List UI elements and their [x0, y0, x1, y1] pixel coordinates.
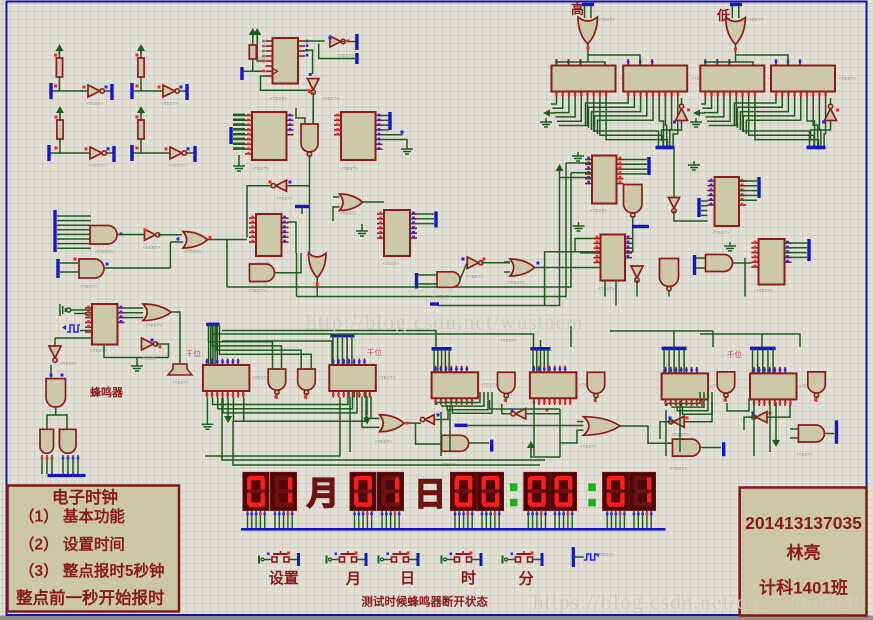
wire drv-v: [210, 325, 212, 365]
terminal T36: [434, 212, 437, 228]
ground g36: [356, 227, 368, 236]
terminal bus drv: [531, 347, 551, 351]
clock source CLK2: [572, 547, 600, 567]
terminal bus: [807, 146, 826, 150]
wire gao-t: [584, 6, 586, 18]
wire u24-r: [785, 243, 808, 257]
wire u42-loop: [104, 344, 169, 357]
inverter bus: [676, 104, 688, 120]
svg-text:<TEXT>: <TEXT>: [145, 323, 162, 328]
wire gao-b: [588, 55, 640, 66]
svg-text:<TEXT>: <TEXT>: [248, 288, 265, 293]
svg-text:201413137035: 201413137035: [745, 513, 862, 533]
wire 1a: [59, 51, 61, 91]
inverter U7: [307, 79, 319, 95]
wire buzz dn: [42, 455, 78, 474]
terminal T52: [490, 440, 493, 452]
pins drv bottom: [207, 391, 243, 398]
inverter U42: [142, 338, 158, 350]
svg-text:<TEXT>: <TEXT>: [378, 375, 395, 380]
inverter U57: [752, 412, 767, 423]
terminal TE: [430, 302, 439, 305]
svg-text:<TEXT>: <TEXT>: [252, 375, 269, 380]
wire u38-o: [481, 262, 510, 264]
pins IC U12 bottom: [705, 92, 755, 99]
wire u17-l3: [560, 177, 593, 179]
wire u31-i: [287, 185, 310, 187]
wire u51-r: [435, 409, 449, 420]
svg-text:<TEXT>: <TEXT>: [382, 261, 399, 266]
wire u5-d: [305, 50, 313, 74]
wire vE3: [227, 173, 571, 287]
wire u29-i2b: [169, 242, 171, 268]
NAND drv: [298, 369, 316, 395]
display bus blue: [241, 528, 666, 531]
wire stair1: [213, 392, 348, 405]
wire x560: [559, 409, 561, 457]
ground g15: [401, 145, 413, 154]
wire drv-v: [532, 349, 534, 372]
svg-text:<TEXT>: <TEXT>: [276, 196, 293, 201]
wire u57-r: [767, 404, 790, 417]
terminal 2L: [130, 83, 133, 99]
terminal T14: [229, 127, 232, 144]
AND gate U27 8in: [90, 226, 117, 245]
pins drv top: [436, 366, 467, 373]
wire drv-v: [543, 349, 545, 372]
buffer U2: [163, 85, 179, 97]
IC drv: [662, 373, 709, 399]
OR gate U41: [143, 304, 171, 321]
ground gH: [724, 242, 736, 251]
wire u19-l1: [575, 239, 601, 253]
ground gd1: [201, 420, 213, 429]
wire u41-o: [171, 312, 180, 360]
terminal 1R: [110, 84, 113, 100]
wire u30-i2: [60, 271, 79, 273]
wire dwn8: [665, 410, 667, 456]
wire 555-a: [74, 309, 92, 311]
wire u55-o: [620, 426, 673, 443]
wire u5-out1: [305, 40, 325, 42]
wire gao-o: [587, 44, 589, 62]
wire gd1: [206, 398, 208, 421]
power arrow U53: [527, 441, 535, 450]
inverter U23: [669, 198, 680, 213]
wire drv-v: [448, 349, 450, 372]
wire stair5: [677, 392, 708, 411]
wire 555-a2: [74, 314, 92, 316]
wire u35-i2: [333, 207, 340, 221]
wire u17-l2: [571, 172, 592, 174]
wire drv-v: [433, 349, 435, 372]
wire 2a: [140, 51, 142, 91]
AND U30: [79, 259, 104, 278]
svg-text:<TEXT>: <TEXT>: [598, 17, 615, 22]
inverter U28: [145, 229, 160, 240]
colon 1: [510, 483, 518, 506]
wire u22-l: [701, 201, 708, 215]
bottom gray strip: [0, 616, 873, 620]
wire vE2: [297, 163, 567, 297]
inverter U38: [467, 257, 483, 269]
terminal bus drv: [206, 323, 220, 327]
wire u54: [527, 413, 561, 415]
resistor R5: [249, 45, 256, 59]
7-segment display D8: [551, 472, 577, 529]
wire stair3: [447, 392, 488, 410]
wire bus-v: [559, 98, 588, 126]
wire u44-o2: [56, 415, 67, 429]
wire g12-m5: [222, 341, 332, 365]
wire drv-h3: [570, 326, 572, 347]
IC U19: [594, 235, 633, 281]
terminal T34: [295, 205, 309, 208]
pins IC U11 top: [628, 59, 652, 66]
wire u21o: [668, 290, 670, 297]
wire bus-v2: [824, 98, 826, 146]
svg-text:<TEXT>: <TEXT>: [322, 96, 339, 101]
wire dwn3: [205, 397, 340, 456]
svg-text:林亮: 林亮: [787, 543, 821, 563]
clock source CLK1: [62, 325, 80, 332]
buffer U1: [88, 85, 104, 97]
wire bus-v: [706, 98, 724, 117]
wire 4b: [132, 152, 195, 154]
svg-text:<TEXT>: <TEXT>: [86, 101, 103, 106]
buzzer LS1: [168, 360, 192, 375]
wire u37-i: [418, 274, 437, 276]
terminal T30: [56, 259, 59, 278]
pins drv top: [666, 367, 697, 374]
terminal T58: [722, 442, 725, 456]
AND U58: [673, 439, 701, 456]
wire dwn2: [233, 421, 540, 465]
wire u53: [531, 449, 560, 457]
7-segment display D7: [524, 472, 550, 529]
wire bus-v2: [807, 98, 815, 146]
NAND drv: [587, 372, 605, 398]
wire u55-i1: [577, 421, 584, 423]
wire u34-o: [316, 278, 318, 297]
wire u43-i: [54, 338, 56, 346]
svg-text:<TEXT>: <TEXT>: [500, 338, 517, 343]
wire nanddrv: [276, 393, 278, 399]
wire drv-v: [663, 349, 665, 374]
wire drv-v: [214, 325, 216, 365]
wire bus-v: [701, 98, 705, 104]
svg-text:<TEXT>: <TEXT>: [796, 452, 813, 457]
NAND U21: [660, 259, 679, 291]
wire dwn1: [222, 398, 545, 460]
wire nanddrv: [305, 393, 307, 399]
wire drv-h5: [673, 331, 675, 347]
wire u35-o: [363, 201, 385, 203]
wire drv-v: [437, 349, 439, 372]
wire ad1: [227, 398, 229, 414]
wire u16-in2: [312, 110, 314, 124]
IC U32: [249, 214, 289, 256]
wire dwn9: [679, 401, 681, 452]
ground g14: [233, 162, 245, 171]
wire nanddrv: [595, 396, 597, 402]
wire bus-v2: [737, 98, 782, 128]
wire drv-h7: [712, 331, 714, 347]
wire bus-v2: [819, 98, 821, 146]
IC drv: [750, 373, 797, 399]
buffer U3: [90, 147, 106, 159]
svg-text:<TEXT>: <TEXT>: [161, 101, 178, 106]
pins IC U13 top: [776, 59, 800, 66]
resistor R1: [56, 58, 62, 77]
wire bus-v2: [734, 98, 776, 126]
terminal T44: [48, 474, 86, 477]
wire stair3: [452, 392, 492, 413]
wire lh2: [296, 253, 298, 297]
IC drv: [432, 372, 479, 398]
AND U59: [798, 425, 824, 442]
colon 2: [588, 483, 596, 506]
wire bus-v2: [813, 98, 818, 146]
terminal T15: [388, 112, 391, 130]
AND U25: [706, 255, 733, 272]
svg-text:https://blog.csdn.net/qq_25066: https://blog.csdn.net/qq_25066049: [533, 590, 866, 614]
wire u56-l: [660, 422, 673, 439]
terminal bus drv: [750, 347, 776, 351]
wire stair1e: [244, 398, 367, 422]
inverter U56: [669, 416, 684, 427]
svg-text:<TEXT>: <TEXT>: [508, 280, 525, 285]
wire bus-v: [556, 98, 576, 117]
7-segment display D3: [350, 472, 376, 529]
pins drv bottom: [333, 391, 369, 398]
wire stair1: [218, 392, 353, 409]
wire bus-v: [594, 98, 659, 146]
IC U13: [771, 66, 835, 92]
button 日: [379, 551, 420, 566]
terminal 4L: [130, 145, 133, 161]
NAND drv: [717, 372, 735, 398]
NAND drv: [268, 369, 286, 395]
terminal TH: [807, 239, 810, 261]
terminal T17: [647, 157, 650, 175]
wire u50-o: [404, 422, 421, 424]
inverter U43: [49, 346, 61, 362]
wire drv-v: [752, 349, 754, 374]
svg-text:（1） 基本功能: （1） 基本功能: [19, 507, 125, 526]
wire dwn6: [449, 405, 451, 452]
ground g555: [131, 362, 143, 371]
wire businv2: [811, 121, 831, 141]
wire u36-g: [361, 224, 363, 227]
power +5V 1: [56, 44, 64, 53]
button 时: [442, 551, 483, 566]
wire u15-r2: [383, 131, 403, 135]
OR gate U9: [726, 18, 746, 45]
wire u42-o: [156, 344, 169, 358]
wire drv-v: [683, 349, 685, 374]
wire drv-v: [767, 349, 769, 374]
arrow d3: [772, 438, 780, 447]
IC U36: [377, 210, 417, 256]
svg-text:设置: 设置: [269, 570, 299, 587]
wire dwn7: [533, 400, 535, 456]
OR gate U50: [380, 415, 405, 432]
terminal 4R: [193, 146, 196, 162]
button 月: [327, 551, 368, 566]
wire bus-v: [704, 98, 718, 113]
svg-text:（2） 设置时间: （2） 设置时间: [19, 535, 125, 554]
terminal T37: [415, 273, 418, 289]
wire dwn5: [440, 412, 442, 456]
NAND U18: [624, 185, 643, 218]
svg-text:<TEXT>: <TEXT>: [670, 466, 687, 471]
terminal 3L: [47, 145, 50, 161]
wire drv-v: [536, 349, 538, 372]
7-segment display D5: [451, 472, 477, 529]
wire drv-v: [337, 336, 339, 365]
IC U12: [700, 66, 764, 92]
svg-text:<TEXT>: <TEXT>: [340, 211, 357, 216]
svg-text:<TEXT>: <TEXT>: [270, 96, 287, 101]
buffer U4: [170, 147, 186, 159]
wire bus-v2: [659, 98, 663, 146]
ground gE: [572, 152, 584, 161]
power +5V 4: [137, 106, 145, 115]
svg-text:<TEXT>: <TEXT>: [80, 284, 97, 289]
wire businv: [681, 98, 683, 106]
terminal T5: [240, 67, 243, 80]
wire u58-o: [700, 447, 721, 449]
wire stair3: [437, 392, 480, 405]
terminal TH2: [693, 255, 696, 275]
inverter U54: [511, 409, 526, 420]
wire bus-v2: [592, 98, 641, 130]
svg-text:<TEXT>: <TEXT>: [590, 208, 607, 213]
wire bundle U14: [233, 116, 245, 150]
terminal T59: [835, 420, 838, 444]
wire ic-l-or2: [362, 397, 380, 428]
svg-text:<TEXT>: <TEXT>: [839, 76, 856, 81]
wire bus-v: [551, 98, 557, 104]
wire u31-o: [247, 186, 272, 238]
wire bus-v2: [589, 98, 635, 128]
arrow d2: [363, 416, 371, 425]
wire stair3: [442, 392, 484, 406]
wire bus-v2: [673, 98, 678, 146]
wire ad2: [366, 397, 368, 416]
wire drv-v: [762, 349, 764, 374]
pins drv bottom: [436, 398, 472, 405]
wire nand3-inv: [502, 404, 515, 414]
wire display bus: [241, 528, 666, 530]
wire drv-v: [540, 349, 542, 372]
wire t34: [301, 208, 303, 214]
wire u19-l2: [580, 252, 601, 254]
svg-text:<TEXT>: <TEXT>: [337, 53, 354, 58]
wire u16-out: [309, 155, 311, 253]
wire stair1: [233, 392, 366, 421]
IC drv: [203, 365, 250, 391]
wire u35-i: [333, 196, 340, 198]
wire u22-dn: [673, 148, 675, 197]
wire u44-o: [47, 407, 56, 429]
ground left 555: [60, 304, 74, 316]
wire u23: [674, 211, 708, 222]
wire gao-c: [588, 62, 605, 66]
inverter U31: [271, 180, 286, 191]
wire bus-v: [600, 98, 663, 146]
button 分: [503, 551, 544, 566]
wire u39-i: [504, 261, 510, 263]
wire u59-o: [824, 433, 834, 435]
IC U17: [585, 156, 624, 204]
svg-text:http://blog.csdn.net/wustacm: http://blog.csdn.net/wustacm: [306, 310, 584, 334]
wire u14-dn: [238, 155, 240, 162]
wire u44-i: [50, 365, 52, 379]
wire g56-cross: [727, 398, 749, 411]
OR gate U39: [510, 259, 535, 276]
wire u7-out: [312, 92, 314, 124]
OR gate U55: [584, 417, 621, 436]
terminal bus drv: [662, 347, 687, 351]
wire drv-v: [757, 349, 759, 374]
pins drv bottom: [754, 399, 790, 406]
wire u43-w: [55, 337, 92, 339]
wire u5-loop: [261, 76, 312, 90]
pins IC U12 top: [705, 59, 729, 66]
wire nanddrv: [816, 396, 818, 402]
wire di-b: [736, 55, 789, 66]
wire u59-i2: [790, 437, 798, 439]
wire g555w: [136, 358, 138, 363]
wire u29-i2: [170, 241, 183, 243]
wire u6-out: [341, 41, 356, 43]
terminal TG: [757, 177, 760, 198]
terminal bus drv: [432, 347, 452, 351]
terminal T高: [582, 3, 594, 6]
terminal 2R: [185, 84, 188, 100]
wire drv-h9: [610, 330, 713, 332]
7-segment display D2: [271, 472, 297, 529]
IC drv: [530, 372, 577, 398]
wire g12-m2: [213, 326, 282, 369]
wire u30-o: [105, 267, 171, 269]
wire bus-v2: [586, 98, 629, 126]
svg-text:时: 时: [461, 570, 476, 587]
IC U14: [245, 112, 294, 160]
wire u5-res: [253, 59, 265, 71]
wire drv-h6: [761, 334, 763, 347]
wire bus-v: [557, 98, 581, 121]
wire u17-l1: [566, 162, 592, 164]
OR gate U35: [340, 194, 363, 211]
AND U44: [46, 379, 66, 408]
wire u25-i2: [696, 267, 706, 269]
wire 2b: [132, 90, 187, 92]
ground: [540, 118, 552, 127]
pins U5 right: [298, 41, 305, 56]
wire gao-a: [557, 62, 589, 66]
IC U11: [623, 66, 687, 92]
wire u59-i: [790, 428, 798, 430]
AND U37: [437, 272, 460, 288]
wire stair5: [672, 392, 704, 407]
wire bus-v2: [665, 98, 666, 146]
OR gate U8: [578, 17, 598, 44]
wire u28-o: [158, 234, 182, 236]
wire ic-l-or: [371, 397, 380, 419]
